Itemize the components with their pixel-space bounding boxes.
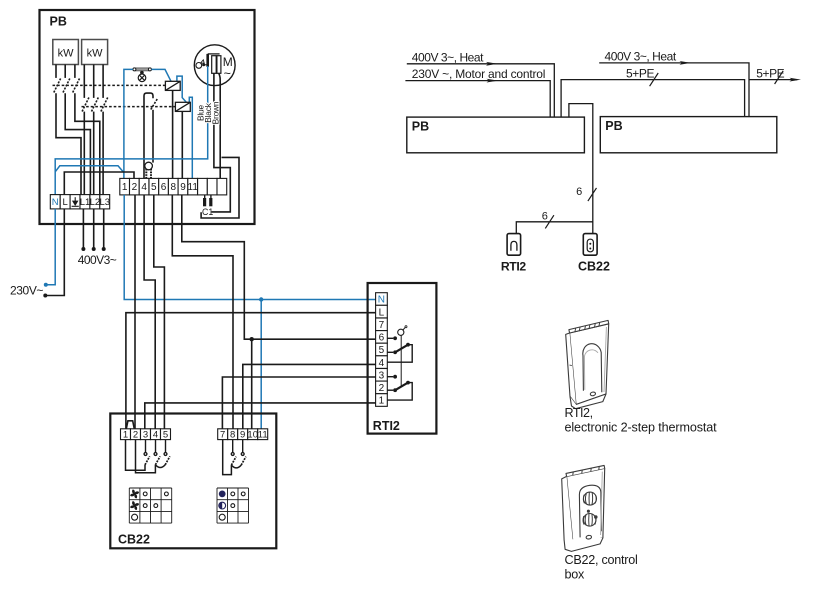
svg-text:CB22: CB22 — [578, 260, 610, 274]
mechanical link K1 (dashed) — [53, 84, 166, 86]
wire kW1 pole2 to L2 — [65, 93, 90, 194]
svg-text:11: 11 — [258, 430, 268, 441]
wire 400V heat supply unit2 — [599, 63, 749, 117]
svg-text:5+PE: 5+PE — [756, 67, 784, 81]
wire RTI2 L to CB22 1 — [126, 313, 376, 429]
thermostat box RTI2 — [368, 283, 437, 434]
wire coil K1 to terminal 8 — [172, 90, 174, 178]
svg-text:3: 3 — [379, 371, 385, 382]
control box CB22 — [110, 414, 276, 549]
terminal strip CB22 right (7-11) — [218, 429, 268, 441]
wire coil K2 to terminal 9 — [181, 111, 183, 178]
contact overheat cutout — [151, 99, 158, 110]
svg-text:CB22: CB22 — [118, 533, 150, 547]
drawing CB22 control box — [562, 465, 605, 551]
svg-text:2: 2 — [379, 383, 385, 394]
svg-text:RTI2: RTI2 — [501, 260, 526, 274]
svg-text:4: 4 — [379, 358, 385, 369]
heater element kW (stage 2) — [82, 40, 108, 65]
wire blue coil K2 to terminal 11 — [189, 97, 192, 178]
svg-text:11: 11 — [188, 182, 199, 193]
contactor coil K1 — [165, 81, 180, 90]
wire 5+PE outgoing — [750, 79, 798, 81]
svg-text:PB: PB — [412, 120, 429, 134]
overheat sensor TB — [145, 162, 153, 178]
svg-text:1: 1 — [122, 182, 128, 193]
wire terminal 4 loop — [144, 93, 153, 178]
terminal strip CB22 left (1-5) — [121, 429, 171, 441]
overheat protector bar ST — [133, 68, 152, 74]
wire kW1 leads — [56, 65, 75, 78]
wire PB5 to CB22 5 — [154, 195, 165, 429]
svg-text:9: 9 — [240, 430, 245, 441]
svg-text:1: 1 — [123, 430, 128, 441]
svg-text:kW: kW — [87, 48, 104, 60]
wire kW2 pole2 to L2 — [93, 112, 95, 195]
node junction 6 — [250, 337, 254, 341]
svg-text:3: 3 — [143, 430, 148, 441]
unit box PB2 — [600, 117, 777, 153]
terminal strip PB main (1 2 4 5 6 8 9 11) — [120, 178, 227, 195]
motor M1 — [194, 45, 235, 86]
svg-text:N: N — [378, 295, 385, 306]
contactor coil K2 — [175, 102, 190, 111]
switch arm fan speed 1 — [126, 440, 146, 471]
symbol RTI2 unit — [507, 234, 520, 256]
svg-text:~: ~ — [224, 67, 231, 81]
wire motor black to C1 — [211, 73, 230, 212]
wire kW1 pole3 to L3 — [75, 93, 100, 194]
svg-text:L: L — [379, 307, 385, 318]
svg-text:4: 4 — [153, 430, 158, 441]
wire motor blue to N — [55, 66, 208, 195]
wire blue N to terminal 1 jumper — [55, 166, 124, 173]
svg-text:PB: PB — [605, 119, 622, 133]
wire L to 230V — [46, 209, 65, 296]
wire 400V heat supply unit1 — [407, 64, 555, 117]
contact stubs CB22 8 9 — [231, 440, 244, 456]
terminal strip PB supply (N L PE L1 L2 L3) — [50, 195, 110, 209]
symbol CB22 unit — [583, 234, 597, 256]
svg-text:RTI2,: RTI2, — [565, 406, 593, 420]
terminal strip RTI2 — [376, 293, 388, 407]
svg-text:1: 1 — [379, 396, 385, 407]
wire capacitor return loop — [201, 157, 239, 218]
svg-text:L3: L3 — [100, 197, 111, 208]
table heat steps — [217, 488, 249, 523]
contact stubs CB22 3 4 5 — [144, 440, 167, 456]
contactor contacts K2 — [82, 98, 108, 112]
svg-text:400V 3~, Heat: 400V 3~, Heat — [605, 49, 677, 63]
wire RTI2 3 to CB22 7 — [222, 377, 375, 429]
link sensor to contacts — [400, 335, 402, 386]
svg-text:Brown: Brown — [210, 101, 220, 124]
svg-text:6: 6 — [161, 182, 167, 193]
wire kW2 pole3 to L3 — [102, 112, 104, 195]
wire junction to CB22 10 — [251, 339, 253, 429]
svg-text:6: 6 — [576, 186, 582, 198]
wire kW2 pole1 to L1 — [83, 112, 85, 195]
wire PB9 to junction — [182, 195, 252, 339]
wire 6-core PB1 to CB22 — [569, 104, 593, 234]
svg-text:230V ~, Motor and control: 230V ~, Motor and control — [412, 67, 545, 81]
svg-text:5: 5 — [151, 182, 157, 193]
wire L1 L2 L3 to 400V — [83, 209, 103, 249]
wire junction to RTI2 6 — [252, 338, 376, 340]
svg-text:CB22, control: CB22, control — [565, 553, 638, 567]
drawing RTI2 thermostat — [566, 320, 609, 408]
contactor contacts K1 — [54, 79, 80, 93]
svg-text:5+PE: 5+PE — [626, 67, 654, 81]
wire blue coil K1 to coil K2 — [177, 76, 186, 102]
svg-text:2: 2 — [132, 182, 138, 193]
wire PB8 to CB22 8 — [172, 195, 233, 429]
svg-text:PB: PB — [50, 15, 67, 29]
wire 6-core branch to RTI2 — [516, 222, 593, 234]
svg-text:kW: kW — [58, 48, 75, 60]
enclosure box PB — [40, 10, 255, 224]
svg-text:8: 8 — [230, 430, 235, 441]
heater element kW (stage 1) — [53, 40, 79, 65]
table fan speeds — [129, 488, 171, 523]
capacitor C1 — [202, 195, 213, 217]
svg-text:7: 7 — [220, 430, 225, 441]
switch arms heat selector — [223, 440, 232, 475]
contact RTI2 stage2 — [387, 375, 412, 400]
svg-text:2: 2 — [133, 430, 138, 441]
svg-text:RTI2: RTI2 — [373, 419, 400, 433]
mechanical link K2 (dashed) — [82, 106, 176, 108]
wire kW2 leads — [84, 65, 103, 98]
svg-text:6: 6 — [379, 333, 385, 344]
node blue N junction — [259, 297, 263, 301]
wire N to 230V — [46, 209, 55, 285]
wire blue bar to coil K1 — [151, 69, 171, 81]
svg-text:8: 8 — [171, 182, 177, 193]
svg-text:6: 6 — [542, 211, 548, 223]
wire RTI2 4 to CB22 9 — [243, 364, 376, 428]
wire L to terminal 2 jumper — [64, 172, 134, 195]
svg-text:N: N — [52, 197, 59, 208]
wire N blue PB1 to RTI2 N — [124, 195, 375, 300]
svg-text:10: 10 — [247, 430, 258, 441]
wire N blue to CB22 11 — [260, 300, 262, 429]
svg-text:230V~: 230V~ — [10, 284, 43, 298]
jumper bump CB22 1-2 — [126, 421, 134, 429]
wire 230V motor control supply — [405, 81, 550, 118]
svg-text:C1: C1 — [202, 207, 213, 217]
earth symbol PE — [72, 197, 79, 206]
svg-text:400V3~: 400V3~ — [78, 253, 117, 267]
indicator lamp H1 — [138, 74, 146, 82]
unit box PB1 — [407, 117, 585, 153]
wire 5+PE link PB1 to PB2 — [561, 80, 745, 118]
svg-text:electronic 2-step thermostat: electronic 2-step thermostat — [565, 421, 718, 435]
svg-text:4: 4 — [141, 182, 147, 193]
svg-text:400V 3~, Heat: 400V 3~, Heat — [412, 50, 484, 64]
wire cutout to sensor — [152, 110, 154, 163]
sensor RTI2 — [398, 326, 407, 336]
contact RTI2 stage1 — [387, 336, 412, 362]
wire blue lamp feed to terminal 1 — [124, 69, 133, 178]
svg-text:box: box — [565, 567, 586, 581]
svg-text:L: L — [62, 197, 67, 208]
wire PB2 to CB22 2 — [134, 195, 136, 429]
svg-text:5: 5 — [163, 430, 168, 441]
wire motor brown to terminal — [219, 73, 220, 178]
wire PB4 to CB22 4 — [144, 195, 155, 429]
svg-text:7: 7 — [379, 320, 385, 331]
switch arms fan speed 2 — [136, 440, 156, 473]
wire kW1 pole1 to L1 — [56, 93, 81, 194]
svg-text:9: 9 — [180, 182, 186, 193]
svg-text:5: 5 — [379, 345, 385, 356]
wire RTI2 1 to CB22 3 — [145, 403, 376, 429]
